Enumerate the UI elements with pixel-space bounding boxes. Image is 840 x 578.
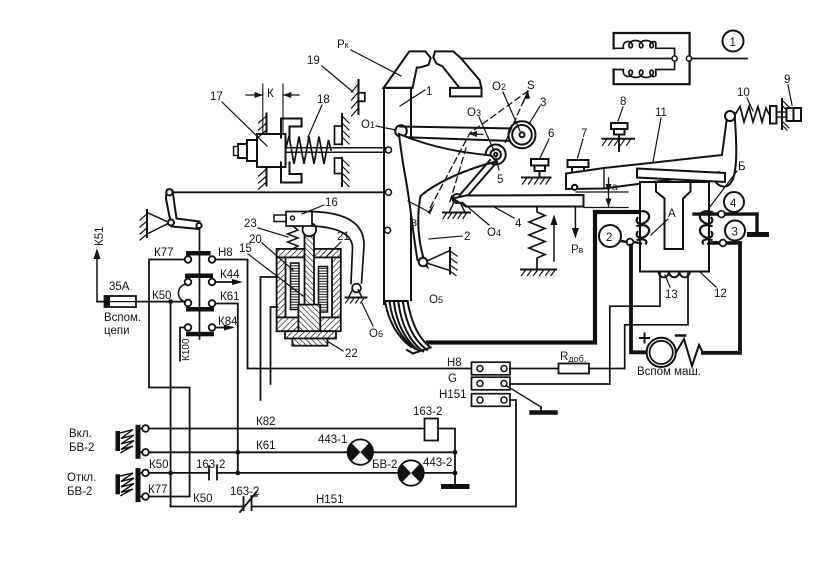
spring under lever 4 bbox=[529, 207, 545, 269]
svg-text:Н8: Н8 bbox=[447, 357, 462, 369]
circled terminal 4 bbox=[724, 192, 744, 212]
svg-text:О4: О4 bbox=[487, 227, 501, 239]
arrow К84 bbox=[216, 325, 236, 331]
label О5 bbox=[429, 294, 443, 306]
wire coil13 right to Rдоб net bbox=[625, 272, 688, 369]
svg-text:6: 6 bbox=[548, 128, 554, 140]
link 5 from O3 roller to O4 bbox=[459, 160, 497, 201]
ground under spring bbox=[521, 270, 556, 276]
svg-text:К77: К77 bbox=[148, 484, 168, 496]
wire К77 bbox=[149, 260, 190, 497]
wire solenoid to H151 bbox=[261, 277, 278, 400]
pivot O6 with anchor bbox=[346, 284, 367, 303]
svg-text:163-2: 163-2 bbox=[196, 459, 225, 471]
stop bracket upper bbox=[281, 119, 302, 138]
svg-text:10: 10 bbox=[737, 87, 750, 99]
svg-text:4: 4 bbox=[730, 198, 737, 210]
svg-text:2: 2 bbox=[464, 231, 470, 243]
label Вспом маш bbox=[637, 366, 701, 378]
wire К100 stub bbox=[180, 328, 185, 361]
svg-text:163-2: 163-2 bbox=[413, 406, 442, 418]
label 163-2 top bbox=[413, 406, 442, 418]
wire from blowout to right bbox=[692, 58, 747, 60]
svg-text:Вспом.: Вспом. bbox=[104, 312, 141, 324]
buffer rod left cap 17 bbox=[234, 140, 258, 161]
label 21 with leader bbox=[325, 231, 350, 258]
label К61 line bbox=[256, 440, 276, 452]
terminal label circled 1 bbox=[723, 31, 744, 52]
label О6 with leader bbox=[362, 303, 383, 340]
label Н151 line bbox=[316, 494, 344, 506]
wire К61 from bar down bbox=[216, 304, 238, 473]
label 5 with leader bbox=[496, 158, 503, 186]
svg-text:G: G bbox=[448, 373, 457, 385]
blowout coil frame bbox=[614, 33, 690, 84]
svg-text:1: 1 bbox=[730, 37, 736, 49]
roller at O3 bbox=[486, 145, 506, 165]
svg-text:К50: К50 bbox=[149, 459, 169, 471]
bell crank lever bbox=[166, 189, 202, 229]
adjusting bolt 7 bbox=[568, 160, 589, 187]
label Рв bbox=[571, 244, 584, 256]
coil A terminal circle bbox=[627, 239, 634, 246]
label Н8 row bbox=[447, 357, 462, 369]
svg-text:Вкл.: Вкл. bbox=[69, 428, 92, 440]
label К50 bbox=[152, 290, 172, 302]
wall anchor 19 bbox=[352, 80, 365, 116]
spring 23 bbox=[288, 226, 299, 249]
label Вкл БВ-2 bbox=[69, 428, 94, 454]
svg-text:16: 16 bbox=[325, 197, 338, 209]
svg-text:4: 4 bbox=[515, 218, 522, 230]
svg-text:22: 22 bbox=[345, 348, 358, 360]
label Рк with leader bbox=[337, 39, 401, 76]
label G row bbox=[448, 373, 457, 385]
label 16 with leader bbox=[302, 197, 338, 214]
label К100 bbox=[181, 338, 192, 361]
ground for lamps bbox=[444, 484, 468, 489]
label 443-1 bbox=[318, 434, 347, 446]
label 19 with leader bbox=[307, 55, 353, 92]
svg-text:5: 5 bbox=[497, 174, 503, 186]
lever 2 plate body bbox=[399, 134, 497, 267]
fixed contact horn right with foot bbox=[433, 51, 481, 96]
contact bar from O1 to roller 3 bbox=[400, 127, 516, 142]
wire Rдоб to coil 13 right bbox=[589, 368, 625, 370]
svg-text:А: А bbox=[668, 208, 676, 220]
lever 2 pivot with anchor bbox=[419, 248, 457, 276]
svg-text:а: а bbox=[612, 182, 618, 193]
buffer housing bbox=[257, 134, 286, 167]
label К44 bbox=[220, 269, 240, 281]
link line from bell crank to frame bbox=[173, 191, 386, 193]
label 11 with leader bbox=[653, 107, 667, 162]
arrow К51 bbox=[94, 248, 101, 302]
lever 11 clevis pin bbox=[572, 185, 577, 190]
wire from horn to blowout coil bbox=[461, 58, 672, 60]
plunger 15 bbox=[305, 235, 315, 318]
arrow К44 bbox=[216, 279, 244, 285]
svg-text:Н151: Н151 bbox=[316, 494, 344, 506]
dimension K bbox=[246, 84, 299, 134]
terminal block Н8 bbox=[472, 362, 511, 375]
resistor Rдоб bbox=[559, 364, 590, 374]
svg-text:К51: К51 bbox=[94, 227, 106, 247]
label 6 with leader bbox=[540, 128, 554, 158]
wire К82 line bbox=[149, 429, 455, 486]
svg-text:БВ-2: БВ-2 bbox=[69, 442, 94, 454]
label О3 with leader bbox=[467, 107, 494, 151]
up arrow beside spring bbox=[551, 215, 558, 262]
stop bracket lower bbox=[281, 163, 302, 183]
lever 11 elbow pin bbox=[716, 172, 721, 177]
dashed trajectory S bbox=[430, 91, 528, 208]
wire К61 line bbox=[149, 451, 455, 453]
label 22 with leader bbox=[327, 341, 358, 360]
svg-text:17: 17 bbox=[210, 91, 223, 103]
zigzag brush symbol bbox=[676, 339, 703, 366]
force arrow Рв bbox=[572, 207, 579, 239]
gap dimension a bbox=[576, 178, 628, 208]
contact 163-2 with latch on Н151 line bbox=[240, 492, 257, 512]
wire from K50 junction down to lamp line and H151 bbox=[170, 302, 172, 507]
svg-text:Б: Б bbox=[738, 161, 746, 173]
svg-text:К: К bbox=[267, 88, 274, 100]
label Н151 row bbox=[439, 389, 467, 401]
svg-text:К77: К77 bbox=[154, 247, 174, 259]
label 13 with leader bbox=[665, 275, 678, 301]
svg-text:О6: О6 bbox=[369, 328, 383, 340]
label Rдоб bbox=[560, 351, 586, 364]
label 163-2 lower bbox=[230, 486, 259, 498]
svg-text:К50: К50 bbox=[152, 290, 172, 302]
svg-text:35А: 35А bbox=[109, 281, 130, 293]
svg-text:Н151: Н151 bbox=[439, 389, 467, 401]
svg-text:9: 9 bbox=[784, 74, 790, 86]
coil 13 bottom loops bbox=[659, 272, 690, 278]
rod from bell crank to contact stack bbox=[199, 228, 201, 339]
label в bbox=[411, 217, 417, 229]
curved arm from link 16 to O6 bbox=[312, 212, 364, 284]
blowout terminal circles bbox=[672, 56, 692, 61]
junction dots bbox=[168, 450, 457, 475]
label 7 with leader bbox=[578, 128, 588, 158]
link curve bar2 to bar3 bbox=[178, 284, 186, 302]
label 9 with leader bbox=[784, 74, 792, 105]
svg-text:18: 18 bbox=[317, 94, 330, 106]
svg-text:8: 8 bbox=[620, 96, 626, 108]
label К50 button bbox=[149, 459, 169, 471]
svg-text:Вспом маш.: Вспом маш. bbox=[637, 366, 701, 378]
svg-text:Н8: Н8 bbox=[218, 247, 233, 259]
svg-text:О5: О5 bbox=[429, 294, 443, 306]
label 1 with leader bbox=[400, 86, 432, 106]
lever 4 bar bbox=[453, 195, 584, 207]
arrow at point в bbox=[408, 201, 435, 215]
label 18 with leader bbox=[308, 94, 330, 137]
pushbutton Вкл БВ-2 bbox=[116, 425, 149, 459]
svg-text:БВ-2: БВ-2 bbox=[67, 486, 92, 498]
blowout coil upper winding bbox=[614, 41, 675, 57]
wire Н151 loop bbox=[171, 400, 516, 507]
resistor 163-2 vertical bbox=[425, 419, 439, 441]
wire K50 feed bbox=[136, 301, 184, 303]
interlock contact bar К50-К61 bbox=[185, 300, 216, 312]
label К77 button bbox=[148, 484, 168, 496]
armature plate on electromagnet bbox=[637, 169, 725, 183]
svg-text:443-1: 443-1 bbox=[318, 434, 347, 446]
plus sign bbox=[640, 334, 649, 343]
bell crank anchor bbox=[140, 210, 167, 240]
stand for bolt 8 bbox=[603, 139, 635, 146]
label К61 bbox=[220, 291, 240, 303]
svg-text:S: S bbox=[527, 80, 535, 92]
bolt anchor 9 bbox=[770, 99, 801, 130]
main frame of lever 1 bbox=[384, 88, 413, 304]
label 2 with leader bbox=[429, 231, 470, 243]
terminal block Н151 bbox=[472, 394, 511, 407]
circled terminal 3 bbox=[725, 221, 745, 241]
flexible shunt arc O5 fan bbox=[385, 301, 431, 354]
heavy wire coil A to machine plus bbox=[631, 246, 646, 353]
svg-text:К50: К50 bbox=[193, 493, 213, 505]
label 20 with leader bbox=[249, 234, 293, 270]
terminal 3 wire and circle bbox=[710, 240, 740, 247]
fuse 35А bbox=[97, 296, 136, 307]
wire Н8 row to Rдоб bbox=[510, 368, 559, 370]
svg-text:Откл.: Откл. bbox=[67, 472, 96, 484]
label Откл БВ-2 bbox=[67, 472, 96, 498]
svg-text:БВ-2: БВ-2 bbox=[372, 459, 397, 471]
svg-text:К61: К61 bbox=[256, 440, 276, 452]
lever 11 top pivot circle bbox=[725, 111, 735, 121]
return spring 10 bbox=[735, 107, 770, 123]
pivot O1 circle bbox=[395, 125, 407, 137]
label 35А bbox=[109, 281, 130, 293]
armature knob bbox=[303, 223, 317, 237]
ground bar at terminal 4 bbox=[750, 232, 767, 237]
interlock contact bar К84-К100 bbox=[185, 324, 216, 336]
svg-text:К44: К44 bbox=[220, 269, 240, 281]
buffer left wall hatched bbox=[259, 114, 267, 190]
buffer rod bbox=[247, 147, 392, 153]
label Б with leader bbox=[706, 161, 746, 212]
coil Б loops on right leg bbox=[700, 211, 716, 243]
svg-text:163-2: 163-2 bbox=[230, 486, 259, 498]
buffer spring 18 bbox=[286, 136, 332, 164]
auxiliary machine circle bbox=[647, 338, 676, 367]
stand for bolt 6 bbox=[522, 178, 551, 185]
svg-text:в: в bbox=[411, 217, 417, 229]
svg-text:19: 19 bbox=[307, 55, 320, 67]
link 16 bbox=[274, 212, 312, 227]
label 12 with leader bbox=[700, 272, 727, 300]
svg-text:13: 13 bbox=[665, 289, 678, 301]
lamp 443-2 bbox=[398, 460, 423, 485]
core 22 bottom blocks bbox=[285, 305, 336, 346]
electromagnet core 12 bbox=[640, 182, 709, 272]
label S with arrow bbox=[523, 80, 535, 103]
svg-text:цепи: цепи bbox=[104, 325, 130, 337]
wire G row to coil 13 left bbox=[510, 383, 610, 385]
label 23 with leader bbox=[244, 218, 288, 237]
svg-text:23: 23 bbox=[244, 218, 257, 230]
svg-text:7: 7 bbox=[581, 128, 587, 140]
label 163-2 mid bbox=[196, 459, 225, 471]
label А with leader bbox=[651, 208, 676, 235]
label К50 lower bbox=[193, 493, 213, 505]
svg-text:К84: К84 bbox=[218, 316, 238, 328]
moving contact horn left (part of lever 1) bbox=[384, 51, 431, 88]
coil A loops on left leg bbox=[634, 211, 650, 243]
label 17 with leader bbox=[210, 91, 267, 146]
label 4 with leader bbox=[495, 208, 522, 231]
svg-text:15: 15 bbox=[239, 243, 252, 255]
roller 3 at O2 bbox=[509, 121, 536, 148]
label 10 with leader bbox=[737, 87, 753, 111]
terminal block G bbox=[472, 377, 511, 390]
label К77 bbox=[154, 247, 174, 259]
main heavy wire from shunt to coil A bbox=[428, 212, 637, 343]
label 3 with leader bbox=[529, 97, 546, 124]
blowout coil lower winding bbox=[614, 61, 675, 78]
label О1 region bbox=[432, 159, 446, 171]
wire Н8 from bar to terminal row bbox=[216, 260, 472, 369]
wire solenoid to G bbox=[271, 307, 278, 384]
buffer right wall hatched bbox=[335, 114, 350, 187]
adjusting bolt 6 bbox=[531, 159, 549, 178]
svg-text:443-2: 443-2 bbox=[423, 457, 452, 469]
solenoid winding 20 bbox=[291, 263, 300, 310]
svg-text:Pв: Pв bbox=[571, 244, 584, 256]
label 8 with leader bbox=[618, 96, 626, 121]
svg-text:К61: К61 bbox=[220, 291, 240, 303]
svg-text:12: 12 bbox=[714, 288, 727, 300]
svg-text:Pк: Pк bbox=[337, 39, 349, 51]
pivot O4 with anchor bbox=[443, 194, 470, 219]
small arrow on bar bbox=[469, 131, 484, 137]
ground wire from G terminal bbox=[506, 386, 556, 413]
interlock contact bar К44 bbox=[185, 274, 216, 286]
lamp 443-1 bbox=[348, 439, 373, 464]
label 15 with leader bbox=[239, 243, 303, 296]
label Н8 bbox=[218, 247, 233, 259]
label К82 bbox=[256, 416, 276, 428]
terminal 4 wire and circle bbox=[694, 211, 757, 233]
svg-text:К100: К100 bbox=[181, 338, 192, 361]
svg-text:3: 3 bbox=[732, 227, 738, 239]
label О2 with leader bbox=[492, 81, 520, 131]
label К84 bbox=[218, 316, 238, 328]
label БВ-2 lamps bbox=[372, 459, 397, 471]
svg-text:11: 11 bbox=[655, 107, 667, 119]
contact 163-2 gap bbox=[209, 466, 217, 479]
interlock contact bar К77-Н8 bbox=[185, 251, 216, 263]
svg-text:О2: О2 bbox=[492, 81, 506, 93]
svg-text:К82: К82 bbox=[256, 416, 276, 428]
holding solenoid casing bbox=[277, 249, 341, 331]
pushbutton Откл БВ-2 bbox=[116, 468, 149, 502]
minus sign bbox=[676, 334, 685, 337]
frame terminal circles bbox=[385, 189, 392, 233]
label К51 bbox=[94, 227, 106, 247]
svg-text:3: 3 bbox=[540, 97, 546, 109]
svg-text:1: 1 bbox=[426, 86, 432, 98]
lever 11 body bbox=[566, 114, 736, 190]
svg-text:О1: О1 bbox=[361, 119, 375, 131]
label 443-2 bbox=[423, 457, 452, 469]
adjusting bolt 8 bbox=[611, 123, 628, 151]
wire К50 lamp line bbox=[149, 472, 455, 474]
solenoid winding 21 bbox=[319, 267, 328, 313]
label Вспом цепи bbox=[104, 312, 141, 337]
label О1 pivot with leader bbox=[361, 119, 396, 131]
wire coil13 left to G net bbox=[610, 272, 660, 384]
label О4 with leader bbox=[462, 202, 501, 239]
junction K50 bbox=[168, 299, 173, 304]
heavy wire machine minus to terminal 3 bbox=[703, 243, 740, 353]
svg-text:2: 2 bbox=[606, 232, 612, 244]
circled terminal 2 bbox=[599, 225, 627, 247]
